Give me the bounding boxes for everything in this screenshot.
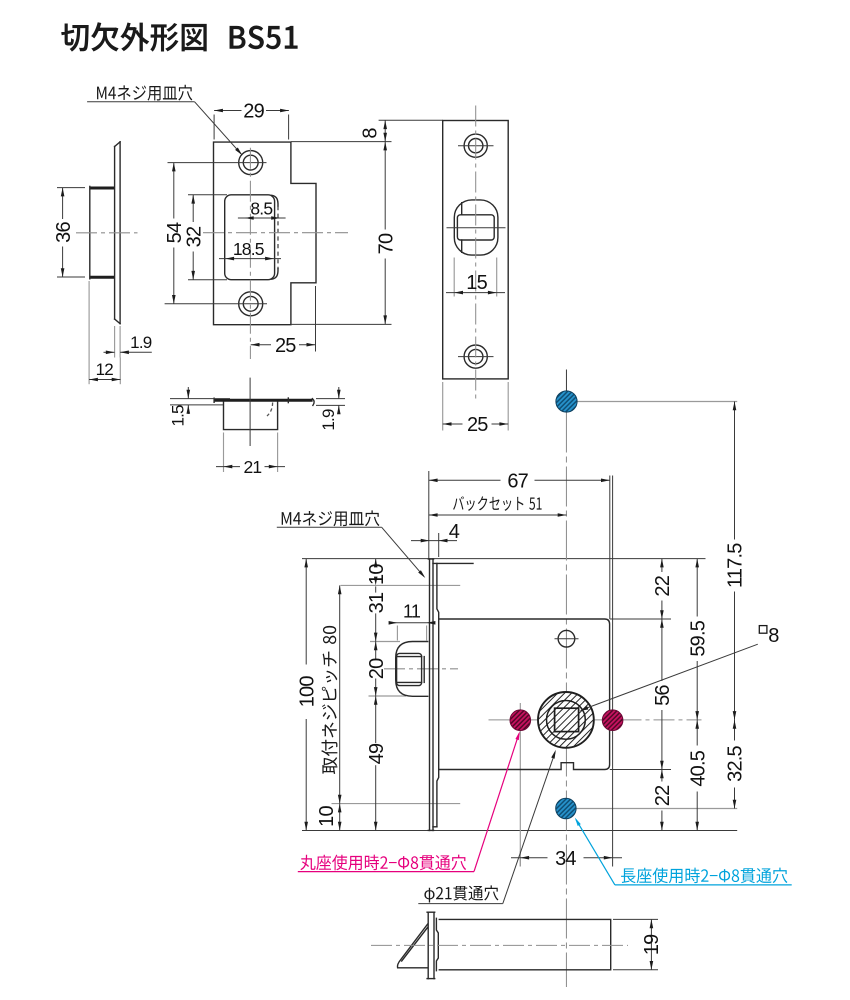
- right dim stack C: 117.5 / 32.5: [734, 402, 736, 540]
- ext lines for dim 11: [396, 626, 398, 641]
- hub centerline horizontal: [489, 719, 702, 721]
- svg-text:22: 22: [652, 785, 674, 806]
- latch centerline: [384, 668, 458, 670]
- centerline view1: [76, 232, 138, 234]
- dust box below flange: [224, 402, 278, 429]
- dim 67: [429, 479, 501, 481]
- svg-text:100: 100: [296, 676, 318, 708]
- left dim stack: 10 / 31 / 20 / 49: [375, 559, 377, 565]
- dim 12: [88, 281, 90, 384]
- svg-text:1.9: 1.9: [319, 409, 338, 431]
- svg-text:36: 36: [53, 222, 75, 243]
- dim 15: [453, 258, 455, 297]
- svg-text:56: 56: [652, 685, 674, 706]
- latch guide strip: [436, 918, 438, 970]
- title 切欠外形図 BS51: [61, 22, 297, 51]
- dim 1.9 (view4): [316, 398, 345, 400]
- main vertical centerline: [565, 413, 567, 988]
- flange right hook tip: [312, 399, 314, 406]
- small hole top of case: [558, 630, 575, 647]
- ext for dim 4: [438, 533, 440, 557]
- svg-text:32: 32: [183, 226, 205, 247]
- dim 19: [613, 918, 658, 920]
- centerline stub above top blue circle: [565, 370, 567, 392]
- screw hole bottom (M4): [239, 292, 263, 316]
- svg-text:10: 10: [316, 806, 338, 827]
- dim 54: [173, 163, 175, 219]
- svg-text:59.5: 59.5: [687, 620, 709, 656]
- vertical centerline left Φ8 hole: [519, 703, 521, 867]
- cutout rounded rect: [225, 195, 275, 280]
- right Φ8 hole (magenta): [602, 710, 623, 731]
- dim 80 取付ネジピッチ + bottom 10: [339, 585, 341, 803]
- bottom view box: [439, 919, 610, 969]
- top blue circle centerline: [567, 401, 738, 403]
- dim 8.5: [238, 217, 286, 219]
- bottom Φ8 hole (blue): [556, 798, 576, 818]
- ext faceplate front: [428, 471, 430, 559]
- svg-text:21: 21: [243, 457, 261, 477]
- svg-text:8: 8: [360, 128, 382, 139]
- dim 25 (view2): [315, 286, 317, 352]
- svg-text:18.5: 18.5: [233, 239, 264, 259]
- svg-text:117.5: 117.5: [725, 543, 747, 588]
- dim 21: [223, 433, 225, 473]
- latch bolt (side view): [396, 642, 428, 697]
- left Φ8 hole (magenta): [510, 710, 531, 731]
- label □8 with leader: [759, 626, 767, 634]
- svg-text:8: 8: [768, 625, 779, 647]
- svg-text:1.9: 1.9: [130, 333, 152, 352]
- lock case box outline: [439, 619, 610, 770]
- svg-text:40.5: 40.5: [687, 750, 709, 786]
- svg-text:25: 25: [467, 414, 488, 436]
- strike plate side view: face plate: [114, 147, 116, 320]
- case top/bottom ext right: [610, 618, 671, 620]
- dashed latch hint: [267, 403, 273, 417]
- leader M4ネジ用皿穴 (top): [97, 85, 192, 101]
- svg-text:8.5: 8.5: [250, 198, 272, 218]
- dim 8 (right offset): [379, 119, 443, 121]
- screw hole top: [464, 134, 487, 157]
- latch bolt wedge tip: [397, 924, 427, 968]
- screw hole top (M4): [239, 151, 263, 175]
- dim 25 (view3): [442, 382, 444, 431]
- right dim stack A: 22 / 56 / 22: [661, 559, 663, 572]
- vertical line through right Φ8 holes / 67 ext: [612, 476, 614, 867]
- svg-text:10: 10: [366, 564, 388, 585]
- latch bolt front: [454, 200, 498, 255]
- dim 36: [57, 187, 85, 189]
- leader M4ネジ用皿穴 (main): [282, 510, 380, 526]
- label 長座使用時2-Φ8貫通穴 (cyan): [621, 868, 787, 884]
- svg-text:11: 11: [403, 601, 421, 621]
- dim 1.9: [114, 326, 116, 358]
- label φ21貫通穴 (black): [424, 885, 498, 902]
- centerlines view2: [249, 148, 251, 359]
- screw hole bottom: [464, 345, 487, 368]
- svg-text:29: 29: [243, 101, 264, 123]
- dim 70: [291, 323, 392, 325]
- dim 18.5: [219, 258, 281, 260]
- strike plate front outline: [214, 142, 317, 325]
- svg-text:15: 15: [466, 272, 487, 294]
- bottom view centerline: [371, 944, 628, 946]
- svg-text:67: 67: [507, 471, 528, 493]
- faceplate bar (bottom view): [427, 912, 429, 978]
- dim バックセット51: [429, 514, 567, 516]
- faceplate (main view): [429, 559, 431, 830]
- right dim stack B: 59.5 / 40.5: [696, 559, 698, 617]
- svg-text:20: 20: [366, 658, 388, 679]
- dim 11: [389, 622, 433, 624]
- svg-text:1.5: 1.5: [168, 405, 187, 427]
- bottom blue circle centerline: [566, 808, 737, 810]
- latch crosshair: [447, 227, 506, 229]
- ext case back / 67: [609, 476, 611, 620]
- dim 29: [213, 115, 215, 140]
- case front wall: [437, 563, 439, 826]
- center line view4: [249, 378, 251, 446]
- dim 34: [519, 851, 521, 867]
- latch seen through cutout: dashed line + corner hooks: [277, 206, 279, 269]
- dim 1.5: [170, 398, 230, 400]
- dim 32: [188, 194, 227, 196]
- tick on flange: [287, 398, 289, 403]
- svg-text:25: 25: [275, 335, 296, 357]
- svg-text:49: 49: [366, 743, 388, 764]
- hub: hatched circle with square hole: [538, 692, 594, 748]
- top Φ8 hole (blue): [556, 391, 577, 412]
- svg-text:19: 19: [641, 934, 663, 955]
- svg-text:22: 22: [652, 575, 674, 596]
- reference/extension lines: [302, 558, 706, 560]
- latch face plate outline: [443, 121, 509, 379]
- flange left lip: [213, 398, 215, 402]
- svg-text:31: 31: [366, 592, 388, 613]
- dim 4: [411, 540, 457, 542]
- dim 100: [305, 559, 307, 665]
- strike plate side view: box body: [89, 187, 114, 190]
- svg-text:70: 70: [375, 233, 397, 254]
- centerline view3: [475, 106, 477, 401]
- svg-text:34: 34: [555, 848, 576, 870]
- svg-text:32.5: 32.5: [725, 745, 747, 781]
- svg-text:12: 12: [96, 360, 114, 379]
- label 丸座使用時2-Φ8貫通穴 (magenta): [300, 855, 466, 871]
- svg-text:4: 4: [449, 521, 460, 543]
- flange plate (thick): [214, 399, 313, 402]
